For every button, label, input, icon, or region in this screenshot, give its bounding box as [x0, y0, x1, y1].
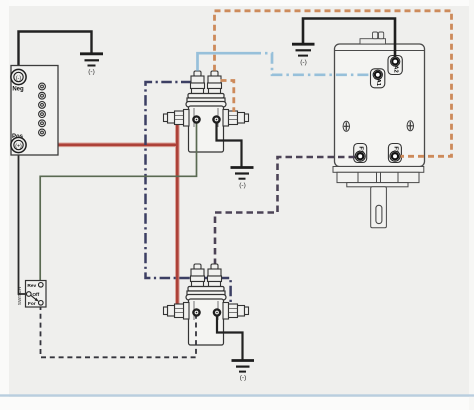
wire purple dashed: motor F1 to solenoid K2 stud [215, 157, 355, 264]
wire orange dashed: solenoid K1 right terminal to motor F2 [215, 11, 452, 157]
svg-text:(-): (-) [239, 182, 246, 189]
motor terminal F1 [355, 151, 365, 161]
wire K2 right contact to ground G4 (black) [217, 315, 243, 360]
ground G1 [80, 54, 103, 76]
svg-text:For: For [28, 301, 36, 307]
ground G4 [232, 361, 255, 382]
ground G2 [292, 44, 315, 66]
motor terminal A1 [373, 70, 382, 79]
ground G3 [231, 168, 254, 190]
wire green: K1 left contact to switch Rev [40, 122, 196, 282]
wire light blue dash-dot: solenoid K1 stud to motor A1 [198, 53, 374, 75]
svg-text:Rev: Rev [27, 283, 36, 289]
svg-text:(-): (-) [300, 59, 307, 66]
motor terminal F2 [390, 151, 400, 161]
switch S1 [17, 281, 46, 308]
svg-text:SWITCH: SWITCH [17, 287, 22, 305]
solenoid K1 [164, 71, 249, 152]
motor M1 [333, 32, 425, 228]
wire K1 right contact to ground G3 (black) [217, 122, 242, 167]
battery B1 [11, 66, 58, 156]
motor terminal A2 [391, 57, 400, 66]
svg-text:(+): (+) [15, 143, 22, 149]
svg-text:Neg: Neg [12, 87, 24, 93]
wire navy dash-dot: solenoid K1 stud to solenoid K2 right terminal [146, 82, 231, 303]
svg-text:(-): (-) [240, 375, 247, 382]
solenoid K2 [164, 264, 249, 345]
contact terminals K2 [192, 308, 221, 317]
wire red: battery Pos to solenoid K1 and K2 left terminals [26, 115, 177, 307]
svg-text:(-): (-) [16, 75, 21, 81]
wire battery Neg to ground G1 (black) [19, 32, 92, 72]
wire motor A2 to ground G2 (black) [303, 19, 395, 59]
wire gray dashed: switch For to K2 left contact [41, 305, 197, 357]
contact terminals K1 [192, 115, 221, 124]
wire battery Pos to switch Off (black) [19, 152, 28, 294]
svg-text:(-): (-) [88, 69, 95, 76]
